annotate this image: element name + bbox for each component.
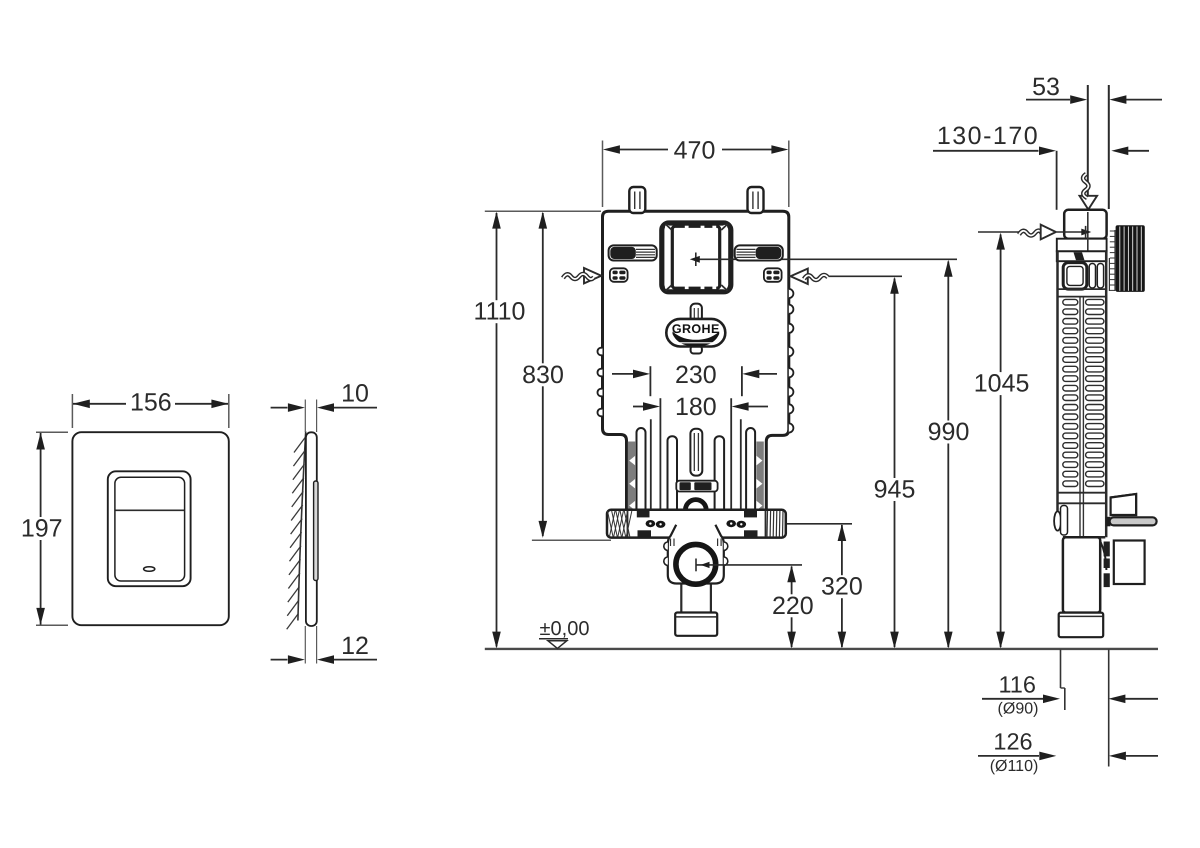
svg-text:±0,00: ±0,00: [540, 618, 590, 640]
svg-text:53: 53: [1032, 73, 1060, 101]
svg-text:156: 156: [130, 389, 172, 417]
svg-text:220: 220: [772, 592, 814, 620]
svg-text:320: 320: [821, 573, 863, 601]
svg-text:470: 470: [674, 137, 716, 165]
svg-text:GROHE: GROHE: [672, 322, 720, 336]
svg-text:126: 126: [993, 729, 1032, 755]
svg-text:10: 10: [341, 380, 369, 408]
svg-text:12: 12: [341, 632, 369, 660]
svg-text:(Ø110): (Ø110): [990, 758, 1039, 775]
svg-text:830: 830: [522, 361, 564, 389]
svg-text:197: 197: [21, 515, 63, 543]
svg-text:180: 180: [675, 393, 717, 421]
svg-text:130-170: 130-170: [937, 122, 1039, 150]
svg-text:1045: 1045: [974, 370, 1030, 398]
svg-text:230: 230: [675, 361, 717, 389]
svg-text:116: 116: [998, 672, 1035, 698]
svg-text:990: 990: [928, 418, 970, 446]
svg-text:(Ø90): (Ø90): [998, 700, 1039, 717]
svg-text:1110: 1110: [474, 298, 526, 326]
svg-text:945: 945: [874, 476, 916, 504]
